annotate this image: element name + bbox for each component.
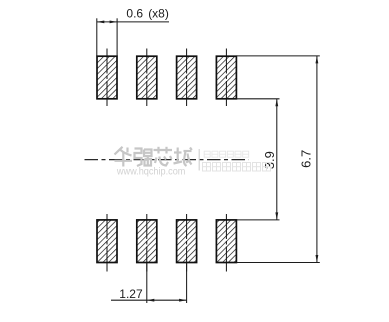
watermark tagline line 2 (7 small chars) — [203, 163, 271, 172]
dimension 0.6 (x8): dimension line — [97, 21, 169, 23]
dimension 6.7: bottom arrow — [316, 255, 319, 263]
dimension 1.27: extension line right — [186, 263, 188, 303]
pad 2 top row (hatched) — [137, 56, 157, 99]
dimension 1.27: extension line left — [146, 263, 148, 303]
dimension 3.9: bottom arrow — [275, 212, 278, 220]
pad 1 top row (hatched) — [97, 56, 117, 99]
watermark char 3 (xin) — [154, 147, 173, 166]
centerline pad 5 bottom row — [106, 214, 108, 272]
dimension 1.27: left arrow — [147, 299, 155, 302]
watermark tagline line 1 (6 small chars) — [204, 151, 249, 157]
centerline pad 1 top row — [106, 49, 108, 107]
horizontal centerline (dash-dot) — [85, 159, 249, 161]
centerline pad 3 top row — [186, 49, 188, 107]
svg-text:1.27: 1.27 — [119, 287, 143, 301]
pad 3 top row (hatched) — [177, 56, 197, 99]
dimension 3.9: extension line top — [236, 98, 279, 100]
pad 7 bottom row (hatched) — [177, 220, 197, 263]
pad 5 bottom row (hatched) — [97, 220, 117, 263]
svg-text:www.hqchip.com: www.hqchip.com — [116, 167, 185, 178]
dimension 6.7: dimension line — [316, 56, 318, 263]
dimension 3.9: dimension line — [276, 99, 278, 220]
pad 6 bottom row (hatched) — [137, 220, 157, 263]
svg-text:6.7: 6.7 — [298, 150, 313, 168]
pad 4 top row (hatched) — [216, 56, 236, 99]
dimension 1.27: dimension line — [111, 299, 187, 301]
dimension 3.9: extension line bottom — [236, 219, 279, 221]
centerline pad 7 bottom row — [186, 214, 188, 272]
dimension 6.7: top arrow — [316, 56, 319, 64]
centerline pad 8 bottom row — [225, 214, 227, 272]
dimension 0.6 (x8): right arrow — [110, 21, 118, 24]
svg-text:0.6(x8): 0.6(x8) — [126, 6, 168, 20]
watermark char 4 (cheng) — [174, 148, 192, 167]
dimension 6.7: extension line top — [236, 55, 319, 57]
dimension 0.6 (x8): left arrow — [97, 21, 105, 24]
watermark divider — [198, 149, 200, 171]
watermark char 2 (qiang) — [135, 149, 152, 167]
dimension 0.6 (x8): extension line right — [116, 18, 118, 56]
dimension 6.7: extension line bottom — [236, 262, 319, 264]
dimension 0.6 (x8): extension line left — [96, 18, 98, 56]
pad 8 bottom row (hatched) — [216, 220, 236, 263]
centerline pad 6 bottom row — [146, 214, 148, 272]
watermark char 1 (hua) — [115, 147, 133, 167]
centerline pad 2 top row — [146, 49, 148, 107]
dimension 1.27: right arrow — [179, 299, 187, 302]
centerline pad 4 top row — [225, 49, 227, 107]
dimension 3.9: top arrow — [275, 99, 278, 107]
